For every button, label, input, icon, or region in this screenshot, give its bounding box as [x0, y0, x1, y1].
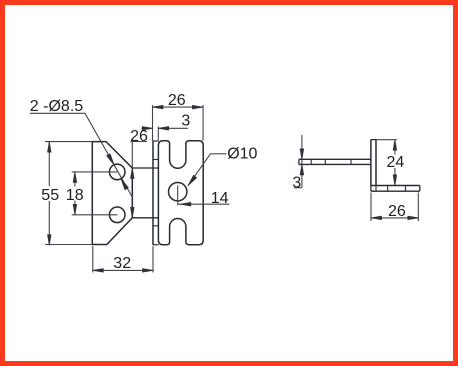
leg bottom edge (front view connector): [132, 217, 158, 219]
side view vertical plate left line: [370, 140, 372, 186]
strip top edge: [153, 140, 158, 142]
leader arrow at top hole lower edge: [121, 179, 128, 190]
dimension 24 line: [394, 140, 396, 155]
label Ø10 arrow: [188, 175, 197, 185]
dimension 55 extension top: [45, 141, 92, 143]
svg-text:55: 55: [41, 187, 59, 204]
side view top plate tick 2: [324, 159, 326, 164]
dimension 26 vertical arrow up: [131, 168, 135, 179]
side dimension 3 extension line: [301, 135, 303, 188]
dimension 24 arrow down: [393, 175, 397, 186]
dimension 26 vertical arrow down: [131, 207, 135, 218]
side dimension 3 hook: [294, 187, 302, 189]
hole center line top: [72, 171, 118, 173]
leader arrow at top hole upper edge: [107, 154, 114, 165]
label 2-Ø8.5 leader: [85, 113, 133, 197]
svg-text:Ø10: Ø10: [227, 145, 257, 162]
side view bottom plate top line: [371, 185, 420, 187]
side view bottom plate bottom line: [371, 190, 420, 192]
dimension 3 line right tail: [158, 127, 188, 129]
side dimension 26 line: [371, 217, 418, 219]
dimension 55 extension bottom: [45, 244, 92, 246]
dimension 26 top line: [153, 106, 203, 108]
svg-text:26: 26: [168, 92, 186, 109]
dimension 14 line: [178, 203, 230, 205]
side view bottom plate tick 2: [387, 186, 389, 192]
strip tick lower: [153, 225, 158, 227]
strip tick upper: [153, 159, 158, 161]
dimension 18 line: [74, 172, 76, 187]
dimension 55 line: [48, 142, 50, 186]
side dimension 3 arrow down: [300, 149, 304, 160]
svg-text:26: 26: [130, 128, 148, 145]
dimension 26 vertical leader: [131, 142, 133, 169]
dimension 3 line left tail: [142, 127, 153, 129]
label 2-Ø8.5 underline: [30, 112, 85, 114]
hole bottom Ø8.5: [109, 207, 125, 223]
side view bottom plate left end: [370, 186, 372, 192]
dimension 24 arrow up: [393, 140, 397, 151]
strip bottom edge: [153, 244, 158, 246]
hole center line bottom: [72, 214, 118, 216]
dimension 18 arrow down: [73, 204, 77, 215]
vertical plate strip left edge: [152, 141, 154, 245]
svg-text:14: 14: [211, 190, 229, 207]
side dimension 26 extension left: [370, 193, 372, 222]
dimension 32 arrow right: [143, 269, 154, 273]
rubber pad (bone) outline: [158, 141, 203, 245]
side dimension 26 arrow left: [371, 216, 382, 220]
label Ø10 leader: [188, 154, 211, 186]
side view vertical plate top edge: [371, 139, 376, 141]
dimension 55 arrow up: [48, 142, 52, 153]
dimension 32 extension left: [92, 246, 94, 273]
side view top plate tick 3: [350, 159, 352, 164]
side view top plate top line: [299, 158, 371, 160]
side view top plate left end: [298, 159, 300, 164]
dimension 26 vertical landing: [131, 141, 148, 143]
dimension 26 top arrow left: [153, 105, 164, 109]
dimension 32 arrow left: [93, 269, 104, 273]
side view bottom plate right end: [419, 186, 421, 192]
label Ø10 landing: [211, 153, 227, 155]
side view top plate bottom line: [299, 163, 371, 165]
dimension 26 top extension left: [152, 105, 154, 141]
dimension 32 line: [93, 269, 153, 271]
hole Ø10: [169, 183, 187, 201]
dimension 18 arrow up: [73, 172, 77, 183]
side dimension 26 extension right: [417, 193, 419, 222]
dimension 26 top arrow right: [192, 105, 203, 109]
svg-text:26: 26: [388, 203, 406, 220]
svg-text:24: 24: [387, 154, 405, 171]
svg-text:18: 18: [66, 187, 84, 204]
side view bottom plate tick 3: [405, 186, 407, 192]
dimension 3 arrow pointing left: [158, 127, 169, 131]
dimension 26 top extension right: [202, 105, 204, 141]
svg-text:3: 3: [292, 175, 301, 192]
dimension 55 arrow down: [48, 235, 52, 246]
front view outline: [92, 142, 132, 245]
hole top Ø8.5: [109, 164, 125, 180]
side dimension 26 arrow right: [408, 216, 419, 220]
hole Ø10 vertical centerline: [177, 185, 179, 205]
svg-text:3: 3: [181, 112, 190, 129]
svg-text:2 -Ø8.5: 2 -Ø8.5: [30, 98, 83, 115]
svg-text:32: 32: [113, 255, 131, 272]
side view bottom plate tick 1: [375, 186, 377, 192]
dimension 24 extension top: [376, 139, 397, 141]
dimension 14 arrow: [180, 202, 191, 206]
dimension 32 extension right: [152, 246, 154, 272]
dimension 3 extension right: [157, 127, 159, 141]
dimension 3 arrow pointing right: [142, 127, 153, 131]
leg top edge (front view connector): [132, 167, 158, 169]
side view vertical plate right line: [375, 140, 377, 186]
side dimension 3 arrow up: [300, 164, 304, 175]
side view top plate tick 1: [310, 159, 312, 164]
